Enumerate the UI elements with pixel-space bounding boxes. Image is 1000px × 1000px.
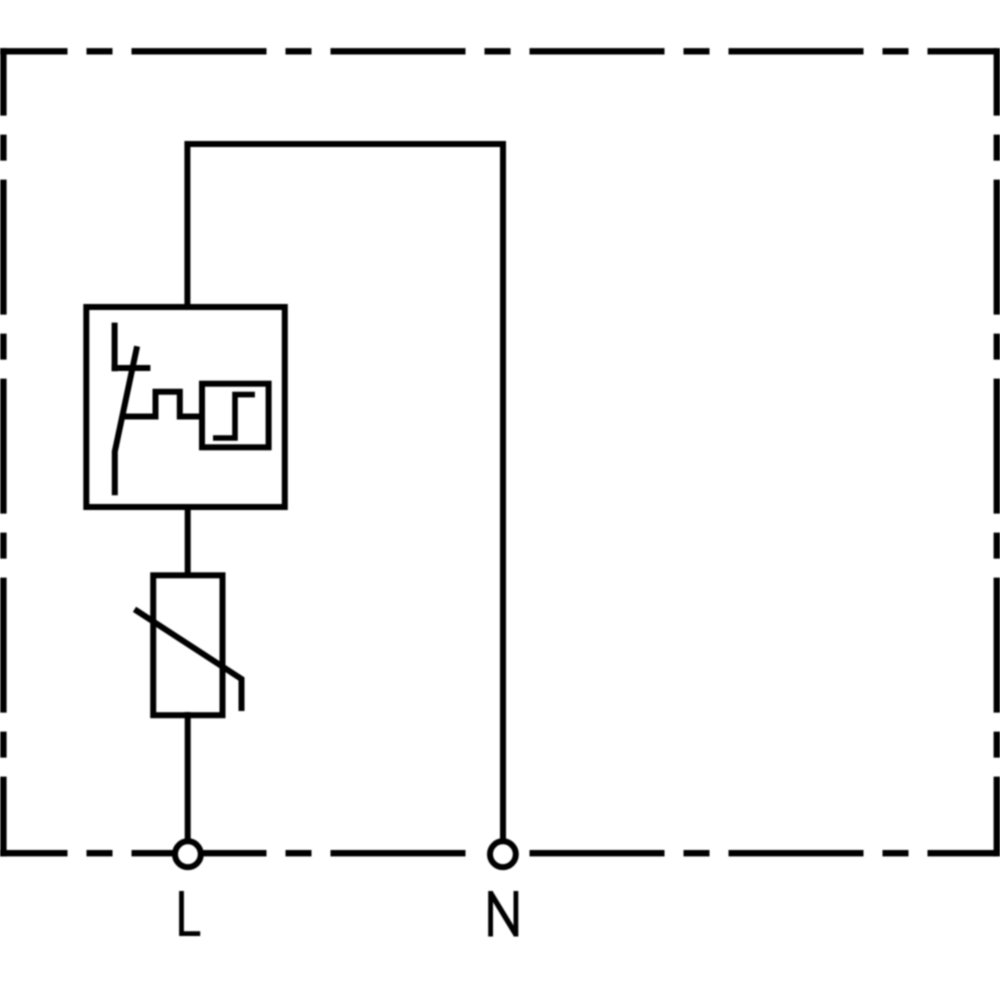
terminal L circle <box>175 841 201 867</box>
wire from varistor bottom to terminal L <box>185 712 191 841</box>
enclosure boundary left edge (dash-dot) <box>0 48 6 856</box>
enclosure boundary bottom edge (dash-dot) <box>0 850 997 856</box>
label L <box>182 891 201 934</box>
terminal N circle <box>490 841 516 867</box>
wire from disconnector bottom to varistor top <box>185 504 191 578</box>
disconnector switch blade <box>115 346 137 495</box>
varistor body rectangle <box>153 575 222 715</box>
wire L branch to top and across to N branch down to terminal N <box>187 144 503 841</box>
disconnector fixed contact vertical stub <box>112 323 118 372</box>
white mask clearing dash nub beside terminal N <box>484 835 522 873</box>
label N <box>491 891 516 937</box>
enclosure boundary right edge (dash-dot) <box>994 48 1000 856</box>
disconnector trip linkage step line <box>123 392 203 417</box>
thermal disconnector box outline <box>86 307 284 507</box>
disconnector fixed contact horizontal bar <box>112 365 151 371</box>
enclosure boundary top edge (dash-dot) <box>0 48 997 54</box>
trigger device box outline <box>202 384 269 448</box>
varistor diagonal stroke with tail <box>135 609 242 711</box>
trigger device surge step symbol <box>213 395 255 438</box>
